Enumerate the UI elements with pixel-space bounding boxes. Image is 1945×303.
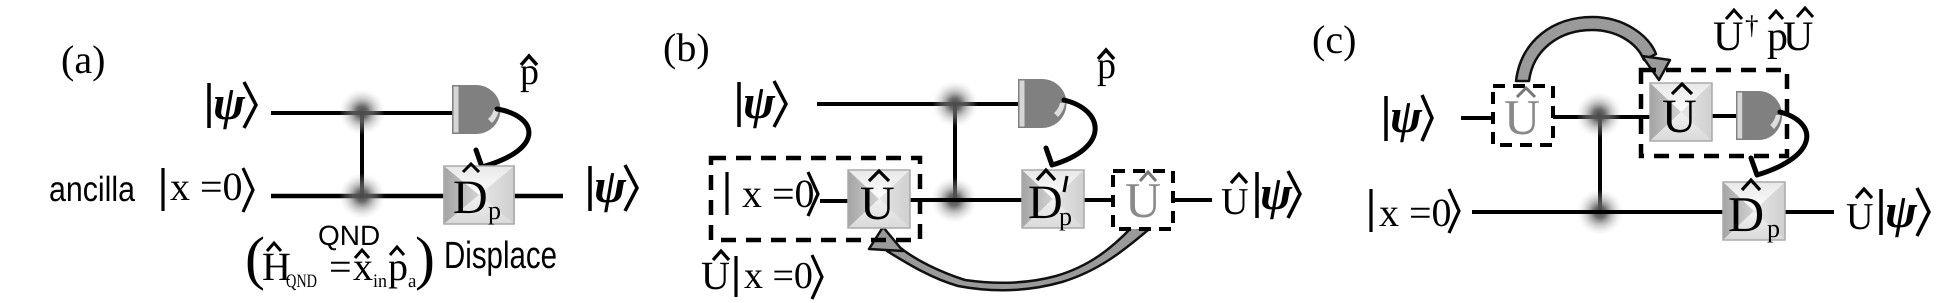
svg-text:ψ: ψ — [1885, 185, 1918, 238]
svg-text:p: p — [388, 244, 408, 289]
svg-text:U: U — [701, 253, 730, 298]
svg-text:QND: QND — [286, 271, 317, 292]
svg-text:=: = — [329, 244, 352, 289]
svg-text:†: † — [1745, 10, 1759, 40]
svg-text:U: U — [1713, 14, 1743, 60]
svg-text:ancilla: ancilla — [49, 170, 135, 209]
svg-text:in: in — [373, 271, 387, 292]
svg-text:x =0: x =0 — [1379, 190, 1452, 235]
svg-text:p: p — [488, 196, 501, 225]
svg-text:x =0: x =0 — [744, 255, 813, 297]
svg-text:ψ: ψ — [1260, 167, 1293, 220]
svg-text:x =0: x =0 — [742, 171, 815, 216]
svg-text:U: U — [1783, 14, 1813, 60]
svg-text:ψ: ψ — [213, 77, 246, 130]
svg-text:(a): (a) — [61, 37, 105, 82]
svg-text:a: a — [408, 271, 417, 292]
svg-text:U: U — [1846, 196, 1873, 238]
svg-text:Displace: Displace — [444, 235, 557, 277]
svg-text:p: p — [1767, 214, 1780, 243]
svg-text:(b): (b) — [663, 25, 710, 70]
svg-text:ψ: ψ — [743, 76, 776, 129]
svg-text:D: D — [453, 171, 488, 224]
svg-text:U: U — [1662, 90, 1697, 143]
svg-text:ψ: ψ — [594, 160, 627, 213]
svg-text:U: U — [1221, 181, 1248, 223]
svg-text:U: U — [1504, 89, 1540, 145]
svg-text:p: p — [1059, 202, 1072, 231]
svg-text:D: D — [1028, 176, 1063, 229]
svg-text:U: U — [860, 177, 895, 230]
svg-text:x =0: x =0 — [170, 164, 243, 209]
svg-text:ψ: ψ — [1390, 90, 1423, 143]
svg-text:): ) — [415, 225, 435, 291]
svg-text:(c): (c) — [1312, 17, 1356, 62]
svg-text:D: D — [1728, 186, 1764, 242]
